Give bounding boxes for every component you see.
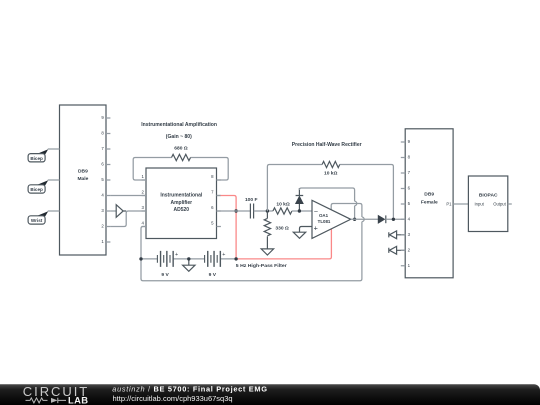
svg-text:Precision Half-Wave Rectifier: Precision Half-Wave Rectifier: [292, 142, 362, 148]
svg-text:Instrumentational: Instrumentational: [160, 192, 203, 198]
diode D2: [378, 215, 384, 223]
ground at op-amp non-inverting input: [293, 227, 312, 239]
wire D2 to DB9 female pin4: [386, 218, 405, 220]
svg-text:Amplifier: Amplifier: [170, 200, 192, 206]
svg-text:1: 1: [141, 174, 144, 179]
svg-text:Bicep: Bicep: [30, 156, 43, 161]
svg-text:+: +: [222, 252, 225, 258]
svg-text:AD520: AD520: [174, 207, 190, 213]
svg-text:−: −: [314, 207, 318, 216]
resistor R2 10 kohm: [273, 208, 292, 214]
resistor R4 10 kohm feedback: [322, 161, 340, 167]
wire AD520 pin6 to capacitor: [217, 210, 251, 212]
svg-text:+: +: [314, 224, 318, 233]
wire hop over output wire: [362, 217, 364, 222]
svg-text:DB9: DB9: [78, 168, 88, 174]
svg-text:BIOPAC: BIOPAC: [479, 193, 498, 199]
flag label Bicep (pin 5): [28, 180, 59, 193]
resistor R3 330 ohm vertical: [264, 211, 270, 249]
svg-text:Output: Output: [493, 202, 506, 207]
junction node at C1/R3: [266, 209, 269, 212]
junction D1 loop at output: [353, 218, 356, 221]
red supply wire from AD520 pin7: [217, 195, 221, 197]
ground between batteries: [183, 259, 195, 271]
wire male pin4 to AD520 pin2: [110, 195, 146, 197]
resistor R1 680 ohm: [172, 154, 191, 160]
svg-text:+: +: [175, 252, 178, 258]
battery V2 9V: [205, 251, 221, 267]
bottom loop wire to op-amp V+: [141, 204, 362, 281]
svg-text:Female: Female: [421, 199, 438, 205]
svg-text:Male: Male: [77, 176, 88, 182]
junction battery ground: [187, 257, 190, 260]
junction red at battery: [234, 257, 237, 260]
svg-text:3: 3: [141, 205, 144, 210]
svg-text:4: 4: [141, 221, 144, 226]
wire P1 to BIOPAC input: [453, 203, 468, 205]
diode D4 at female pin2: [389, 246, 405, 254]
instrumentation amplifier U1 AD520: [142, 168, 221, 239]
svg-text:DB9: DB9: [424, 192, 434, 198]
svg-text:Bicep: Bicep: [30, 187, 43, 192]
svg-text:Input: Input: [475, 202, 485, 207]
wire D1 feedback to output: [299, 188, 354, 219]
wire male pin3 to buffer input: [110, 210, 116, 212]
wire AD520 pin4 down: [141, 227, 146, 280]
svg-text:OA1: OA1: [319, 213, 329, 218]
svg-text:2: 2: [141, 190, 144, 195]
svg-text:10 kΩ: 10 kΩ: [324, 171, 338, 177]
DB9 Female connector J2: [401, 129, 453, 278]
battery V1 9V: [157, 251, 173, 267]
svg-text:9 V: 9 V: [209, 272, 217, 278]
DB9 Male connector J1: [60, 105, 111, 255]
wire op-amp output to D2: [351, 218, 379, 220]
svg-text:http://circuitlab.com/cph933u6: http://circuitlab.com/cph933u67sq3q: [113, 394, 233, 403]
CircuitLab logo diode: [51, 398, 58, 403]
svg-text:100 F: 100 F: [245, 197, 258, 203]
junction red over signal wire: [234, 209, 237, 212]
junction output node: [392, 218, 395, 221]
CircuitLab logo squiggle: [26, 398, 67, 403]
svg-text:TL081: TL081: [318, 219, 331, 224]
svg-text:330 Ω: 330 Ω: [275, 225, 289, 231]
BIOPAC block U3: [468, 176, 507, 232]
diode D3 at female pin3: [389, 231, 405, 239]
svg-text:10 kΩ: 10 kΩ: [276, 201, 290, 207]
svg-text:LAB: LAB: [68, 395, 88, 405]
junction battery left: [139, 257, 142, 260]
feedback wire from node to R4: [267, 165, 393, 220]
wire AD520 pin1 gain loop left: [133, 158, 171, 181]
wire R2 to op-amp inverting input: [292, 210, 312, 212]
diode D1 vertical: [298, 204, 300, 211]
wire AD520 pin8 gain loop right: [191, 158, 229, 181]
buffer U2: [116, 205, 126, 218]
ground under R3: [261, 249, 273, 255]
svg-text:5 Hz High-Pass Filter: 5 Hz High-Pass Filter: [236, 263, 287, 269]
BIOPAC output stub: [508, 203, 512, 205]
svg-text:P1: P1: [446, 202, 452, 207]
svg-text:9 V: 9 V: [161, 272, 169, 278]
wire capacitor to R2: [254, 210, 273, 212]
junction D1 anode: [298, 209, 301, 212]
footer bar: [0, 384, 540, 405]
capacitor C1 100 F: [250, 204, 253, 219]
svg-text:680 Ω: 680 Ω: [174, 146, 188, 152]
wire hop over V+ wire: [355, 201, 357, 205]
svg-text:(Gain ~ 80): (Gain ~ 80): [166, 134, 192, 140]
svg-text:austinzh / BE 5700: Final Proj: austinzh / BE 5700: Final Project EMG: [112, 385, 267, 394]
op-amp OA1 TL081: [312, 200, 351, 238]
wire male pin2 up to buffer output and AD520 pin3: [110, 211, 146, 227]
flag label Wrist (pin 3): [28, 211, 59, 224]
svg-text:Wrist: Wrist: [31, 218, 43, 223]
wire battery row: [141, 258, 236, 260]
flag label Bicep (pin 7): [28, 149, 59, 162]
svg-text:Instrumentational Amplificatio: Instrumentational Amplification: [141, 122, 217, 128]
